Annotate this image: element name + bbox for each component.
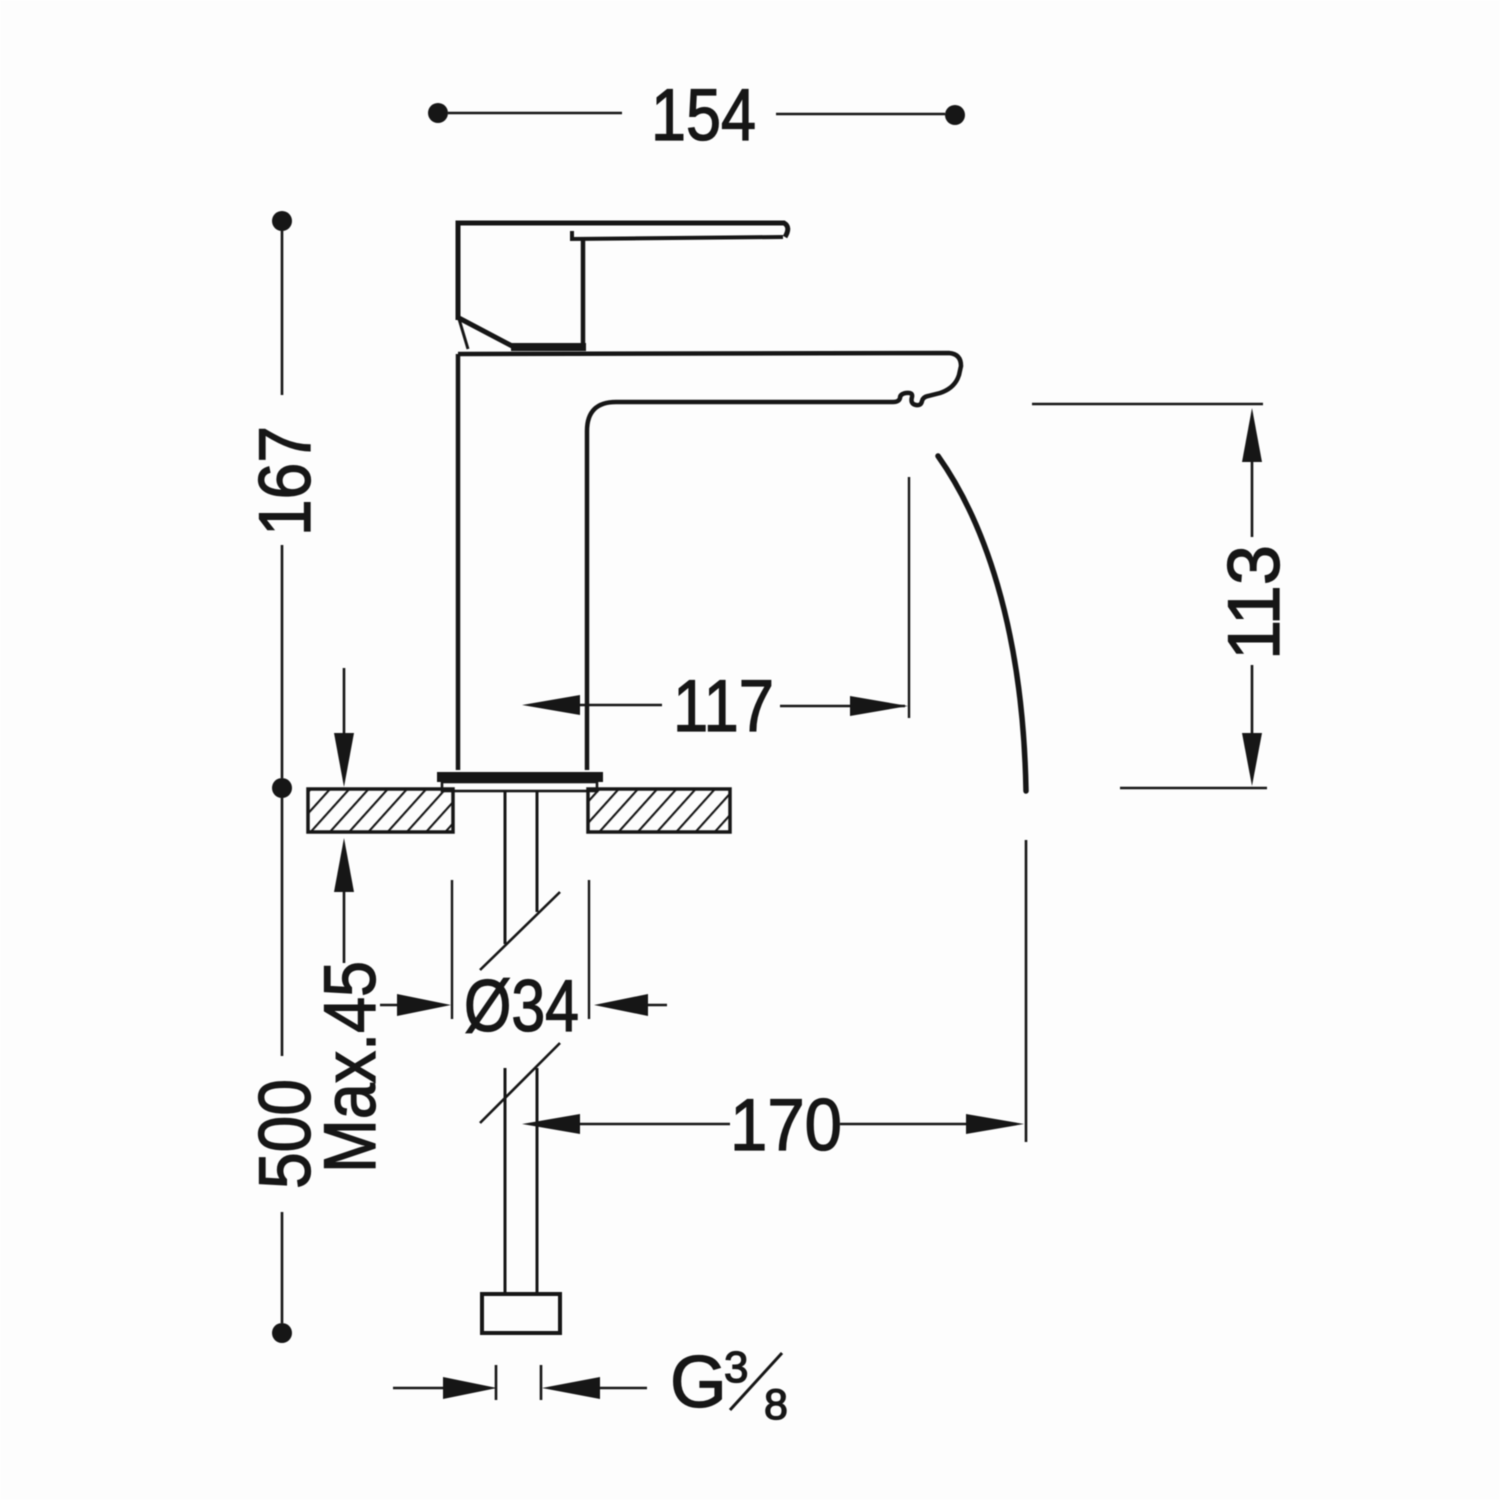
- svg-text:170: 170: [730, 1085, 842, 1166]
- svg-text:3: 3: [724, 1343, 748, 1392]
- svg-text:Max.45: Max.45: [310, 961, 391, 1173]
- svg-text:154: 154: [651, 75, 756, 156]
- svg-text:117: 117: [673, 666, 774, 747]
- svg-text:G: G: [670, 1342, 727, 1423]
- svg-text:113: 113: [1214, 545, 1295, 660]
- svg-text:167: 167: [245, 426, 326, 536]
- svg-text:Ø34: Ø34: [464, 966, 579, 1047]
- svg-text:8: 8: [764, 1381, 788, 1429]
